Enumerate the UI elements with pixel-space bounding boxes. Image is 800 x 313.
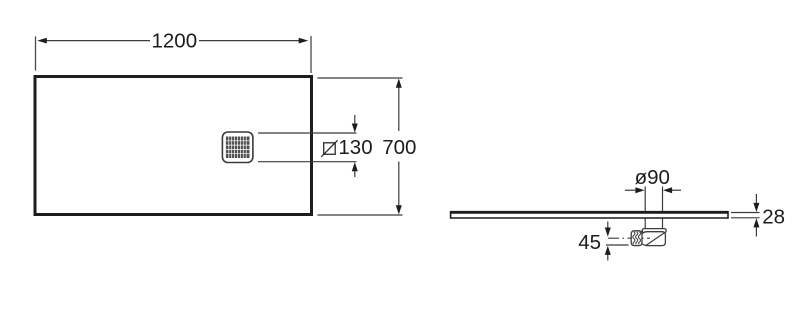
extension line bottom (700): [317, 214, 402, 216]
trap elbow body: [640, 232, 666, 246]
svg-text:ø90: ø90: [635, 166, 670, 189]
trap elbow flange: [642, 229, 666, 233]
arrow 130 top (pointing down): [352, 115, 358, 133]
extension line 45 bottom: [606, 244, 629, 246]
arrow 28 top (pointing down): [753, 194, 759, 212]
extension line 28 bottom: [731, 217, 760, 219]
dimension line 700 lower segment: [398, 162, 400, 209]
extension line left (1200): [35, 36, 37, 70]
centerline (dash-dot): [608, 237, 650, 239]
arrowhead 700 bottom: [396, 205, 402, 214]
arrow ø90 left (pointing right): [625, 187, 645, 193]
extension line 28 top: [731, 212, 760, 214]
square symbol of 130: [321, 140, 337, 157]
dimension line 1200 left segment: [46, 40, 151, 42]
drain grate frame: [222, 132, 253, 163]
svg-text:28: 28: [762, 205, 785, 228]
trap diagonal: [646, 232, 665, 245]
arrowhead 700 top: [396, 79, 402, 88]
extension line top (700): [317, 77, 402, 79]
ribbed connector: [631, 231, 642, 246]
drain pipe wall right: [662, 219, 664, 230]
extension line ø90 right: [662, 187, 664, 212]
tray slab (side view): [451, 211, 729, 219]
arrowhead 1200 right: [299, 38, 309, 44]
tray outline (top view): [35, 77, 312, 215]
arrow 130 bottom (pointing up): [352, 162, 358, 177]
dimension line 1200 right segment: [199, 40, 300, 42]
arrow 45 bottom (pointing up): [605, 246, 611, 261]
drain pipe wall left: [644, 219, 646, 230]
arrow 45 top (pointing down): [605, 222, 611, 237]
svg-text:700: 700: [382, 136, 416, 159]
arrowhead 1200 left: [37, 38, 47, 44]
svg-text:45: 45: [578, 231, 601, 254]
extension line ø90 left: [644, 187, 646, 212]
arrow 28 bottom (pointing up): [753, 218, 759, 236]
dimension line 130 top: [258, 132, 357, 134]
drain grate mesh: [226, 137, 250, 159]
dimension line 130 bottom: [258, 161, 357, 163]
svg-text:130: 130: [338, 136, 372, 159]
dimension line 700 upper segment: [398, 85, 400, 131]
extension line right (1200): [310, 36, 312, 73]
arrow ø90 right (pointing left): [663, 187, 681, 193]
svg-text:1200: 1200: [151, 30, 197, 53]
